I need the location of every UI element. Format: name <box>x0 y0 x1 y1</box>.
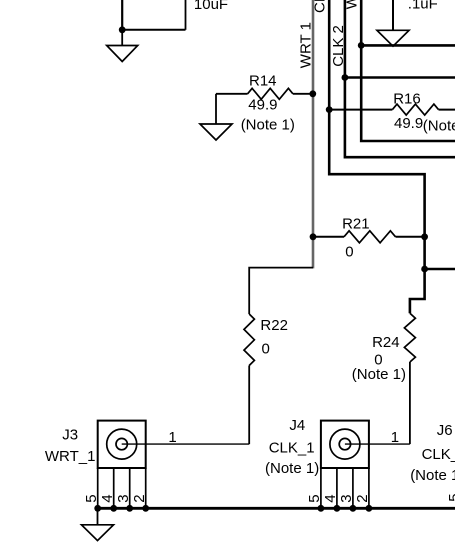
svg-text:3: 3 <box>338 494 355 502</box>
wire pin 1 J4 <box>345 443 410 445</box>
svg-text:4: 4 <box>322 494 339 502</box>
wire <box>249 268 313 314</box>
wire <box>122 29 185 31</box>
wire net CLK 2 <box>345 0 455 157</box>
svg-text:R16: R16 <box>393 90 421 107</box>
pin 4 J3 <box>113 468 115 508</box>
svg-text:(Note 1): (Note 1) <box>241 117 295 134</box>
resistor R22 <box>244 314 254 366</box>
node junction R14/WRT1 <box>309 90 316 97</box>
svg-text:1: 1 <box>168 429 176 446</box>
svg-text:10uF: 10uF <box>194 0 228 13</box>
pin 4 J4 <box>336 468 338 508</box>
wire net CLK 1 <box>329 0 424 313</box>
node junction branch <box>421 266 428 273</box>
capacitor C? bottom lead (10uF) <box>121 0 123 30</box>
connector J4 inner circle <box>339 438 350 449</box>
resistor R14 <box>216 93 248 95</box>
pin 5 J3 <box>97 468 99 508</box>
svg-text:(Note 1): (Note 1) <box>265 460 319 477</box>
svg-text:5: 5 <box>446 493 455 501</box>
svg-text:(Note 1): (Note 1) <box>352 366 406 383</box>
ground <box>215 94 217 124</box>
svg-text:2: 2 <box>354 494 371 502</box>
ground <box>121 30 123 46</box>
pin 2 J4 <box>368 468 370 508</box>
svg-text:5: 5 <box>83 494 100 502</box>
wire <box>185 0 187 30</box>
resistor R24 <box>404 313 415 362</box>
node junction R21 left <box>310 233 317 240</box>
pin 5 J4 <box>320 468 322 508</box>
connector J4 outer circle <box>330 429 360 459</box>
wire net WRT 1 (gray vertical) <box>312 0 315 268</box>
svg-text:R22: R22 <box>260 317 288 334</box>
svg-text:4: 4 <box>99 494 116 502</box>
svg-text:5: 5 <box>306 494 323 502</box>
svg-text:J4: J4 <box>289 417 305 434</box>
resistor R21 <box>313 236 344 238</box>
connector J3 box <box>98 421 146 468</box>
svg-text:(Note 1): (Note 1) <box>410 467 455 484</box>
svg-text:CLK 2: CLK 2 <box>330 25 347 67</box>
svg-text:2: 2 <box>131 494 148 502</box>
wire net WRT 2 <box>361 0 455 141</box>
svg-text:CLK_2: CLK_2 <box>422 446 455 463</box>
pin 2 J3 <box>145 468 147 508</box>
svg-text:J3: J3 <box>62 427 78 444</box>
wire pin 1 J3 <box>122 443 250 445</box>
pin 3 J4 <box>352 468 354 508</box>
resistor R16 <box>329 109 392 111</box>
svg-text:CLK 1: CLK 1 <box>312 0 329 13</box>
svg-text:R14: R14 <box>249 73 277 90</box>
connector J4 box <box>321 421 369 468</box>
ground <box>97 508 99 525</box>
svg-text:49.9: 49.9 <box>394 115 423 132</box>
connector J3 outer circle <box>107 429 137 459</box>
pin 3 J3 <box>129 468 131 508</box>
svg-text:WRT 2: WRT 2 <box>344 0 361 9</box>
svg-text:R24: R24 <box>372 334 400 351</box>
node junction <box>119 26 126 33</box>
svg-text:J6: J6 <box>437 422 453 439</box>
connector J3 inner circle <box>116 438 127 449</box>
node junction R21 right <box>421 233 428 240</box>
wire ground bus <box>98 507 455 510</box>
wire branch CLK 2 <box>345 76 455 79</box>
svg-text:0: 0 <box>345 243 353 260</box>
svg-text:49.9: 49.9 <box>248 97 277 114</box>
svg-text:.1uF: .1uF <box>408 0 438 12</box>
ground <box>377 30 409 46</box>
svg-text:3: 3 <box>115 494 132 502</box>
svg-text:R21: R21 <box>342 215 370 232</box>
wire to right edge <box>425 268 455 271</box>
capacitor C? bottom lead (.1uF) <box>392 0 394 30</box>
svg-text:WRT_1: WRT_1 <box>45 448 96 465</box>
wire branch WRT 2 <box>361 44 455 47</box>
svg-text:0: 0 <box>262 341 270 358</box>
node junction <box>358 42 365 49</box>
svg-text:1: 1 <box>391 429 399 446</box>
svg-text:CLK_1: CLK_1 <box>269 440 315 457</box>
node junction R16/CLK1 <box>326 106 333 113</box>
svg-text:WRT 1: WRT 1 <box>297 22 314 68</box>
svg-text:(Note 1): (Note 1) <box>423 118 455 135</box>
node junction <box>342 74 349 81</box>
